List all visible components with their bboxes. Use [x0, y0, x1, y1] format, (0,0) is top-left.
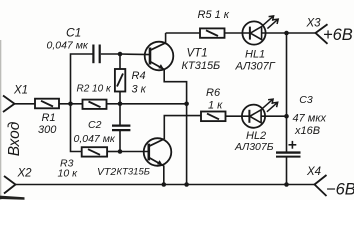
svg-text:КТ315Б: КТ315Б — [117, 166, 150, 177]
svg-text:X3: X3 — [306, 18, 322, 30]
capacitor C3 — [276, 141, 301, 157]
svg-text:VT2: VT2 — [97, 166, 116, 178]
svg-text:R6: R6 — [206, 87, 221, 99]
wire node C down to R4 — [119, 54, 121, 69]
page edge mark bottom-left corner — [0, 196, 25, 200]
wire R5 to HL1 — [225, 32, 243, 34]
LED HL2 — [242, 99, 278, 128]
label R2 10к — [77, 83, 112, 94]
label VT2 КТ315Б — [97, 166, 150, 178]
wire node A up to C1 — [71, 54, 93, 104]
wire R1 to node A — [59, 103, 83, 105]
label X1 — [13, 85, 28, 97]
resistor R6 — [201, 112, 226, 122]
label Вход — [6, 121, 23, 156]
label R3 10к — [58, 158, 79, 180]
node D junction — [118, 149, 123, 154]
label X3 — [306, 18, 322, 30]
label +6В — [323, 26, 353, 44]
svg-text:АЛ307Г: АЛ307Г — [235, 61, 276, 73]
terminal X1 — [3, 96, 15, 113]
label R5 1к — [198, 9, 230, 21]
wire node D to VT2 base — [120, 151, 149, 153]
svg-text:х16В: х16В — [294, 125, 320, 137]
svg-text:КТ315Б: КТ315Б — [182, 60, 221, 72]
wire HL1 to X3 — [265, 32, 315, 34]
page edge mark left — [0, 40, 2, 200]
svg-text:3 к: 3 к — [132, 84, 147, 96]
svg-text:C2: C2 — [88, 119, 102, 131]
transistor VT1 — [145, 42, 174, 71]
capacitor C1 — [93, 45, 99, 64]
label X4 — [306, 166, 321, 178]
wire X1 to R1 — [15, 103, 36, 105]
label C3 47мк 16В — [293, 94, 327, 137]
node B junction — [118, 102, 123, 107]
svg-text:300: 300 — [38, 124, 57, 136]
svg-text:C3: C3 — [299, 94, 313, 106]
label C2 0,047мк — [74, 119, 116, 145]
svg-text:АЛ307Б: АЛ307Б — [234, 141, 274, 153]
wire R4 to node B — [119, 92, 121, 104]
node A junction — [68, 102, 73, 107]
label VT1 КТ315Б — [182, 48, 221, 73]
transistor VT2 — [144, 138, 172, 166]
label C1 0,047мк — [47, 26, 89, 52]
label R6 1к — [206, 87, 223, 112]
svg-text:10 к: 10 к — [58, 168, 79, 180]
node C3 on rail — [284, 182, 289, 187]
node VT1 emitter junction — [184, 102, 189, 107]
bottom rail wire — [16, 184, 315, 186]
svg-text:−6В: −6В — [326, 180, 354, 198]
svg-text:X1: X1 — [13, 85, 28, 97]
LED HL1 — [242, 16, 278, 45]
svg-text:1 к: 1 к — [208, 100, 223, 112]
wire right rail down to C3 — [286, 33, 288, 152]
wire VT1 emitter down — [164, 69, 186, 185]
label HL1 АЛ307Г — [235, 48, 276, 72]
svg-text:0,047 мк: 0,047 мк — [74, 133, 116, 145]
resistor R4 — [115, 69, 125, 92]
label R1 300 — [38, 112, 57, 136]
wire VT2 collector to R6 — [164, 116, 201, 139]
terminal X2 — [4, 176, 16, 194]
label -6В — [326, 180, 354, 198]
wire C3 to bottom rail — [286, 157, 288, 185]
svg-text:Вход: Вход — [6, 121, 23, 156]
svg-text:R5 1 к: R5 1 к — [198, 9, 230, 21]
label R4 3к — [132, 70, 147, 96]
wire node C to VT1 base — [120, 53, 150, 56]
svg-text:R4: R4 — [132, 70, 146, 82]
svg-text:R2 10 к: R2 10 к — [77, 83, 112, 94]
svg-text:HL1: HL1 — [245, 48, 265, 60]
node VT1 emitter on rail — [184, 182, 189, 187]
resistor R1 — [35, 99, 59, 109]
svg-text:47 мкх: 47 мкх — [293, 112, 327, 124]
svg-text:R1: R1 — [42, 112, 56, 124]
top rail wire — [166, 32, 200, 34]
svg-text:+6В: +6В — [323, 26, 353, 44]
svg-text:0,047 мк: 0,047 мк — [47, 40, 89, 52]
svg-text:X2: X2 — [17, 168, 33, 180]
wire node B to VT1 emitter node — [107, 103, 187, 105]
svg-text:C1: C1 — [66, 26, 81, 40]
wire VT1 collector to top rail — [165, 33, 167, 43]
wire node A down to R3 — [71, 104, 82, 152]
label HL2 АЛ307Б — [234, 130, 274, 153]
label X2 — [17, 168, 33, 180]
wire R3 to node D — [107, 151, 120, 153]
wire R6 to HL2 — [226, 115, 243, 117]
resistor R3 — [82, 147, 107, 156]
resistor R5 — [200, 28, 225, 37]
svg-text:VT1: VT1 — [187, 48, 208, 60]
wire VT2 emitter to bottom rail — [163, 165, 164, 184]
node right rail junction — [284, 114, 289, 119]
wire HL2 to right rail — [265, 115, 287, 117]
terminal X3 — [316, 24, 328, 44]
capacitor C2 — [112, 126, 130, 131]
wire C1 to node C — [101, 53, 120, 55]
node C junction — [118, 52, 123, 57]
svg-text:X4: X4 — [306, 166, 321, 178]
node top rail junction — [284, 31, 289, 36]
terminal X4 — [315, 175, 327, 196]
wire node B down to C2 — [119, 104, 121, 125]
wire C2 down to node D — [119, 130, 121, 151]
node VT2 emitter on rail — [162, 182, 167, 187]
resistor R2 — [83, 100, 107, 109]
